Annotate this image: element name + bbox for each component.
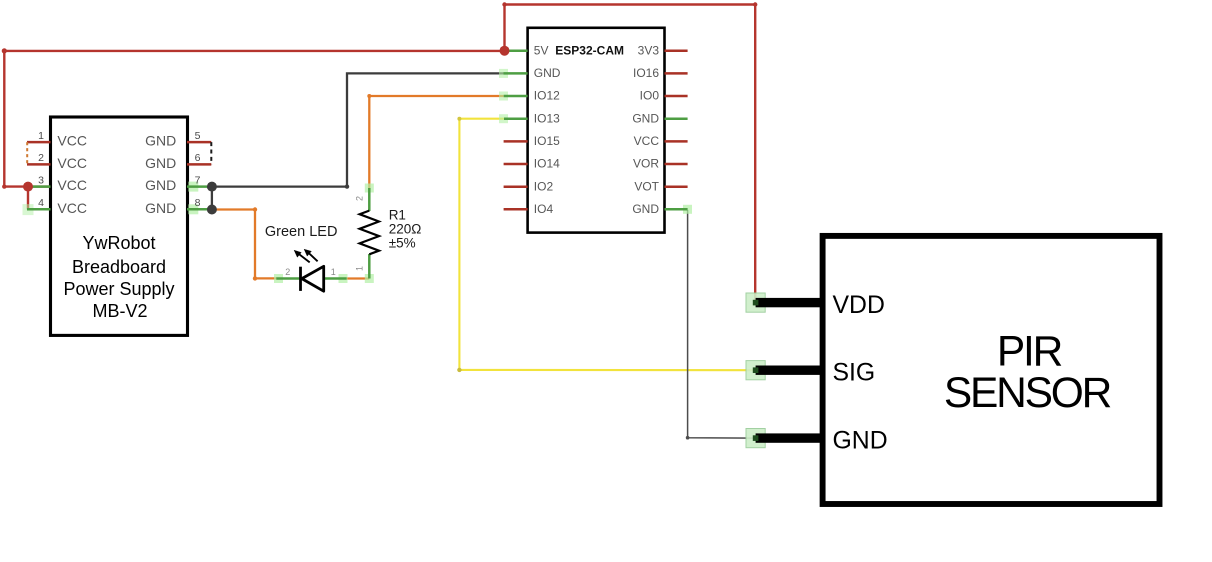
ESP32 pin IO12 xyxy=(499,89,560,103)
R1 pin 1 lead xyxy=(365,274,374,283)
ESP32 pin GND (right row4) xyxy=(632,111,687,125)
ESP32 pin GND (left row2) xyxy=(499,66,561,80)
svg-text:GND: GND xyxy=(632,111,659,125)
svg-text:IO15: IO15 xyxy=(534,134,560,148)
svg-text:IO2: IO2 xyxy=(534,179,554,193)
PSU pin 3 VCC xyxy=(27,174,87,193)
svg-text:1: 1 xyxy=(355,266,365,271)
svg-text:5: 5 xyxy=(195,130,201,142)
svg-text:2: 2 xyxy=(285,267,290,277)
bendpoint red at (4.3,186.6) xyxy=(2,184,6,188)
LED triangle xyxy=(302,266,324,291)
svg-text:VCC: VCC xyxy=(634,134,660,148)
ESP32 pin IO4 xyxy=(504,202,554,216)
svg-text:YwRobot: YwRobot xyxy=(82,233,155,253)
svg-text:IO12: IO12 xyxy=(534,89,560,103)
svg-text:GND: GND xyxy=(145,177,176,193)
R1 zigzag body xyxy=(360,211,379,255)
ESP32 pin VOR xyxy=(633,157,688,171)
PSU pin 1 VCC xyxy=(27,130,87,149)
svg-text:7: 7 xyxy=(195,174,201,186)
LED emission arrow b xyxy=(304,249,318,261)
svg-text:GND: GND xyxy=(632,202,659,216)
PSU pin 6 GND xyxy=(145,152,211,171)
bendpoint black at (347,186.6) xyxy=(345,184,349,188)
svg-text:SENSOR: SENSOR xyxy=(944,370,1111,417)
svg-text:VCC: VCC xyxy=(57,155,87,171)
junction dot black at PSU pin7 xyxy=(207,182,217,192)
svg-text:VCC: VCC xyxy=(57,133,87,149)
ESP32 pin IO0 xyxy=(640,89,688,103)
LED emission arrow a xyxy=(294,250,310,262)
bendpoint red at (755.2,4.5) xyxy=(753,2,757,6)
PIR pin VDD xyxy=(746,292,885,319)
svg-text:ESP32-CAM: ESP32-CAM xyxy=(555,43,624,57)
wire red 5V: PSU pin3 to ESP32 5V (left run) xyxy=(4,51,504,187)
PSU net pins 1-2 dashed xyxy=(26,142,28,164)
svg-text:Green LED: Green LED xyxy=(265,224,338,240)
label YwRobot Breadboard Power Supply MB-V2 xyxy=(63,233,174,321)
bendpoint orange at (369.3,96) xyxy=(367,94,371,98)
ESP32 pin IO2 xyxy=(504,179,554,193)
svg-text:3V3: 3V3 xyxy=(638,43,660,57)
wire orange: PSU pin8 to LED pin2 xyxy=(212,210,277,279)
label PIR SENSOR xyxy=(944,329,1111,418)
svg-text:PIR: PIR xyxy=(997,329,1062,376)
ESP32 pin IO13 xyxy=(499,111,560,125)
wire orange: R1 pin2 to ESP32 IO12 xyxy=(369,96,503,188)
ESP32 pin VCC xyxy=(634,134,688,148)
svg-text:VCC: VCC xyxy=(57,200,87,216)
junction dot red at PSU pin3 xyxy=(23,182,33,192)
wire orange: LED pin1 to R1 pin1 xyxy=(347,277,370,279)
svg-text:GND: GND xyxy=(145,133,176,149)
label R1 220ohm 5% xyxy=(389,208,422,251)
svg-text:8: 8 xyxy=(195,197,201,209)
ESP32 pin GND (right row8) xyxy=(632,202,692,216)
bendpoint gray at (687.6,437.7) xyxy=(686,436,690,440)
LED lead through symbol xyxy=(301,278,324,280)
ESP32 pin 5V xyxy=(505,43,549,57)
LED pin 2 lead xyxy=(274,274,283,283)
svg-text:220Ω: 220Ω xyxy=(389,222,422,237)
svg-text:1: 1 xyxy=(38,130,44,142)
R1 pin 2 lead xyxy=(365,184,374,193)
svg-text:3: 3 xyxy=(38,174,44,186)
svg-text:6: 6 xyxy=(195,152,201,164)
bendpoint red at (504.5,4.5) xyxy=(502,2,506,6)
wire yellow: ESP32 IO13 to PIR SIG xyxy=(459,119,755,371)
bendpoint yellow at (459.4,369.9) xyxy=(457,368,461,372)
svg-text:2: 2 xyxy=(355,196,365,201)
svg-text:4: 4 xyxy=(38,197,44,209)
LED pin 1 lead xyxy=(339,274,348,283)
svg-text:VOT: VOT xyxy=(634,179,659,193)
bendpoint red at (4.3,50.9) xyxy=(2,48,7,53)
power supply module box xyxy=(51,117,188,335)
PSU pin 4 VCC xyxy=(23,197,87,216)
svg-text:GND: GND xyxy=(145,155,176,171)
PSU pin 7 GND xyxy=(145,174,211,193)
svg-text:IO14: IO14 xyxy=(534,157,560,171)
PSU pin 8 GND xyxy=(145,197,211,216)
PIR pin GND xyxy=(746,428,888,455)
wire gray: ESP32 GND (bottom right) to PIR GND xyxy=(688,210,756,438)
ESP32 pin VOT xyxy=(634,179,687,193)
svg-text:MB-V2: MB-V2 xyxy=(92,301,147,321)
svg-text:5V: 5V xyxy=(534,43,549,57)
svg-text:Breadboard: Breadboard xyxy=(72,257,166,277)
svg-text:VCC: VCC xyxy=(57,177,87,193)
svg-text:GND: GND xyxy=(833,428,888,455)
ESP32 pin IO15 xyxy=(504,134,561,148)
svg-text:R1: R1 xyxy=(389,208,406,223)
svg-text:SIG: SIG xyxy=(833,360,876,387)
ESP32 pin 3V3 xyxy=(638,43,688,57)
wire black GND: PSU pin7 to ESP32 GND xyxy=(212,73,504,186)
bendpoint orange at (255,209.5) xyxy=(253,207,257,211)
junction dot black at PSU pin8 xyxy=(207,205,217,215)
svg-text:VOR: VOR xyxy=(633,157,659,171)
wire red 5V: ESP32 5V up over top to PIR VDD xyxy=(505,5,756,303)
junction dot red at ESP32 5V xyxy=(500,46,510,56)
ESP32 pin IO14 xyxy=(504,157,561,171)
svg-text:GND: GND xyxy=(534,66,561,80)
PSU pin 2 VCC xyxy=(27,152,87,171)
bendpoint yellow at (459.4,118.7) xyxy=(457,117,461,121)
svg-text:IO4: IO4 xyxy=(534,202,554,216)
wire red 5V: junction down to PSU pin4 xyxy=(27,187,29,210)
wire black GND: PSU pin7 dot to pin8 dot xyxy=(211,187,213,210)
bendpoint orange at (255,278.4) xyxy=(253,276,257,280)
svg-text:GND: GND xyxy=(145,200,176,216)
LED D1 Green LED xyxy=(265,224,348,291)
resistor R1 xyxy=(355,184,422,284)
svg-text:IO16: IO16 xyxy=(633,66,659,80)
svg-text:IO0: IO0 xyxy=(640,89,660,103)
PSU net pins 5-6 dashed xyxy=(210,142,212,164)
svg-text:IO13: IO13 xyxy=(534,111,560,125)
PIR pin SIG xyxy=(746,360,875,387)
PSU pin 5 GND xyxy=(145,130,211,149)
svg-text:2: 2 xyxy=(38,152,44,164)
PIR sensor box xyxy=(823,236,1160,504)
ESP32 pin IO16 xyxy=(633,66,688,80)
svg-text:Power Supply: Power Supply xyxy=(63,279,174,299)
LED cathode bar xyxy=(299,267,302,291)
svg-text:VDD: VDD xyxy=(833,292,885,319)
ESP32-CAM module box xyxy=(528,28,665,233)
svg-text:±5%: ±5% xyxy=(389,236,416,251)
svg-text:1: 1 xyxy=(331,267,336,277)
